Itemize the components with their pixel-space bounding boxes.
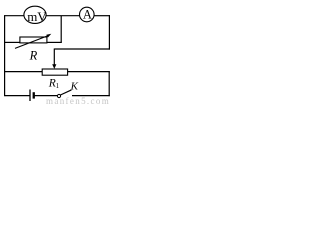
svg-text:mV: mV <box>27 9 47 24</box>
svg-text:A: A <box>83 7 92 21</box>
wire: right vertical upper (top-right corner down to tap wire) <box>108 15 110 50</box>
wire: bottom wire from left corner to battery <box>5 95 30 97</box>
wire: left vertical bus <box>4 15 6 96</box>
wire: row1 left segment to rheostat R <box>5 41 21 43</box>
wire: right vertical lower (row2 corner down to bottom wire) <box>108 71 110 96</box>
wire: top wire between millivoltmeter and ammeter <box>46 15 79 17</box>
svg-text:R: R <box>29 48 38 62</box>
wire: row2 right segment from rheostat R1 to right corner <box>67 71 110 73</box>
rheostat R1 (resistor box with slider arrow tap) <box>42 49 67 76</box>
wire: top wire from left corner to millivoltmeter <box>5 15 24 17</box>
svg-text:K: K <box>70 81 79 93</box>
background <box>0 0 116 106</box>
millivoltmeter mV <box>24 6 47 24</box>
wire: riser from row1 up to top wire junction <box>60 16 62 43</box>
ammeter A <box>80 7 95 22</box>
wire: bottom wire from switch to bottom-right corner <box>72 95 110 97</box>
svg-text:1: 1 <box>56 82 60 90</box>
switch K <box>57 90 71 98</box>
wire: row2 left segment to rheostat R1 <box>5 71 43 73</box>
wire: bottom wire from battery to switch pivot <box>35 95 58 97</box>
battery <box>30 90 35 102</box>
svg-text:manfen5.com: manfen5.com <box>46 96 110 106</box>
wire: row1 right segment from rheostat R to riser <box>47 41 62 43</box>
svg-text:R: R <box>48 77 56 89</box>
wire: top wire from ammeter to top-right corner <box>94 15 110 17</box>
rheostat R (variable resistor box with diagonal arrow) <box>15 34 51 49</box>
wire: slider tap horizontal wire <box>54 48 110 50</box>
